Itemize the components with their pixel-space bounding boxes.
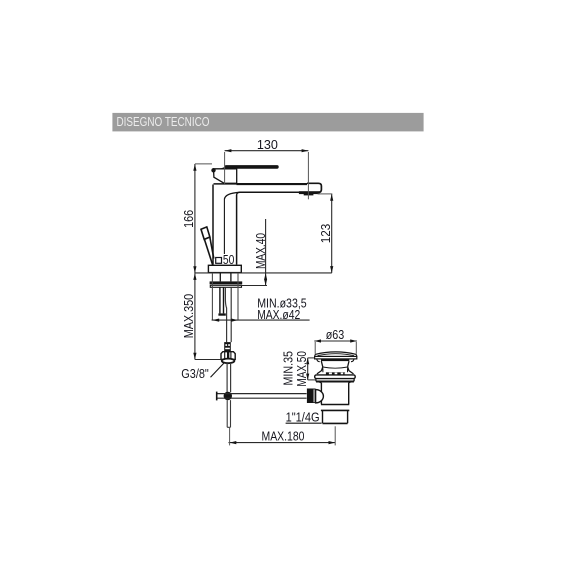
spout end cap [307, 183, 321, 192]
locknut lower bar [210, 285, 241, 287]
horizontal supply pipe [217, 394, 307, 399]
svg-text:130: 130 [257, 138, 278, 152]
fillet outer corner [237, 192, 240, 195]
side mixing lever (dashed) [201, 227, 214, 265]
svg-text:MAX.ø42: MAX.ø42 [257, 308, 300, 322]
base plate [208, 265, 241, 272]
drain upper flange [315, 375, 356, 379]
drain thread band [326, 372, 345, 375]
supply pipe left end cap [216, 392, 218, 401]
drain body [321, 383, 348, 404]
locknut upper bar [210, 281, 243, 284]
hose nut [221, 352, 235, 360]
flexible hose [225, 287, 231, 342]
dimension MAX.40 [239, 219, 268, 286]
supply stub pipe [227, 363, 231, 392]
drain neck and bell [317, 361, 354, 374]
svg-text:MAX.180: MAX.180 [262, 430, 305, 444]
spout bottom line [239, 191, 299, 193]
dimension 123 [318, 194, 334, 273]
header bar DISEGNO TECNICO [112, 113, 423, 131]
faucet lever bar [214, 165, 279, 173]
dimension 130 [225, 138, 309, 199]
drain tail [323, 411, 348, 424]
svg-text:MAX.50: MAX.50 [295, 351, 309, 387]
column face edge [223, 199, 225, 254]
dimension MAX.180 [229, 426, 336, 445]
hose ferrule [224, 342, 231, 352]
spout top edge [214, 183, 238, 185]
spout aerator dark band [299, 191, 320, 194]
drain lower flange [316, 379, 354, 382]
shank below plate [220, 273, 231, 282]
side outlet opening ellipse [316, 390, 324, 403]
dimension 166 [182, 164, 212, 273]
svg-text:166: 166 [182, 210, 196, 228]
dome underside dark band [321, 359, 349, 361]
nut bottom ellipse [222, 359, 235, 364]
faucet head (cartridge housing) [214, 169, 237, 184]
svg-text:1"1/4G: 1"1/4G [286, 411, 320, 425]
drain side outlet dark cylinder [307, 389, 316, 404]
envelope walls (max diameter) [212, 273, 238, 320]
svg-text:G3/8": G3/8" [181, 367, 209, 381]
svg-text:MIN.35: MIN.35 [282, 351, 296, 386]
dimension MAX.350 [182, 273, 221, 359]
label G3/8" with leader [181, 362, 224, 381]
label 1"1/4G with underline [286, 411, 322, 425]
drain dimension diam63 [314, 328, 357, 354]
column right edge [236, 195, 238, 265]
svg-text:DISEGNO TECNICO: DISEGNO TECNICO [117, 114, 210, 129]
hole diameter dimension line with underline of MAX.042 [212, 319, 310, 321]
svg-text:123: 123 [319, 224, 333, 244]
dome rim [315, 356, 357, 359]
vertical pipe below tee [227, 400, 230, 427]
drain ring nut [321, 404, 349, 406]
square symbol of square-50 label [216, 258, 222, 264]
rod foot [218, 313, 225, 315]
faucet pivot dot [211, 168, 215, 172]
lower flange dark bottom [316, 381, 354, 383]
dimension MIN.35 MAX.50 [282, 351, 316, 387]
countertop reference line [195, 272, 332, 274]
svg-text:ø63: ø63 [326, 328, 345, 342]
svg-text:MAX.350: MAX.350 [182, 294, 196, 339]
column left edge [212, 185, 214, 265]
rim corner hooks [317, 359, 320, 362]
threaded rod [220, 287, 224, 313]
drain dome cap [315, 352, 357, 357]
fillet inner edge [224, 192, 239, 199]
tee junction dot [224, 392, 232, 400]
